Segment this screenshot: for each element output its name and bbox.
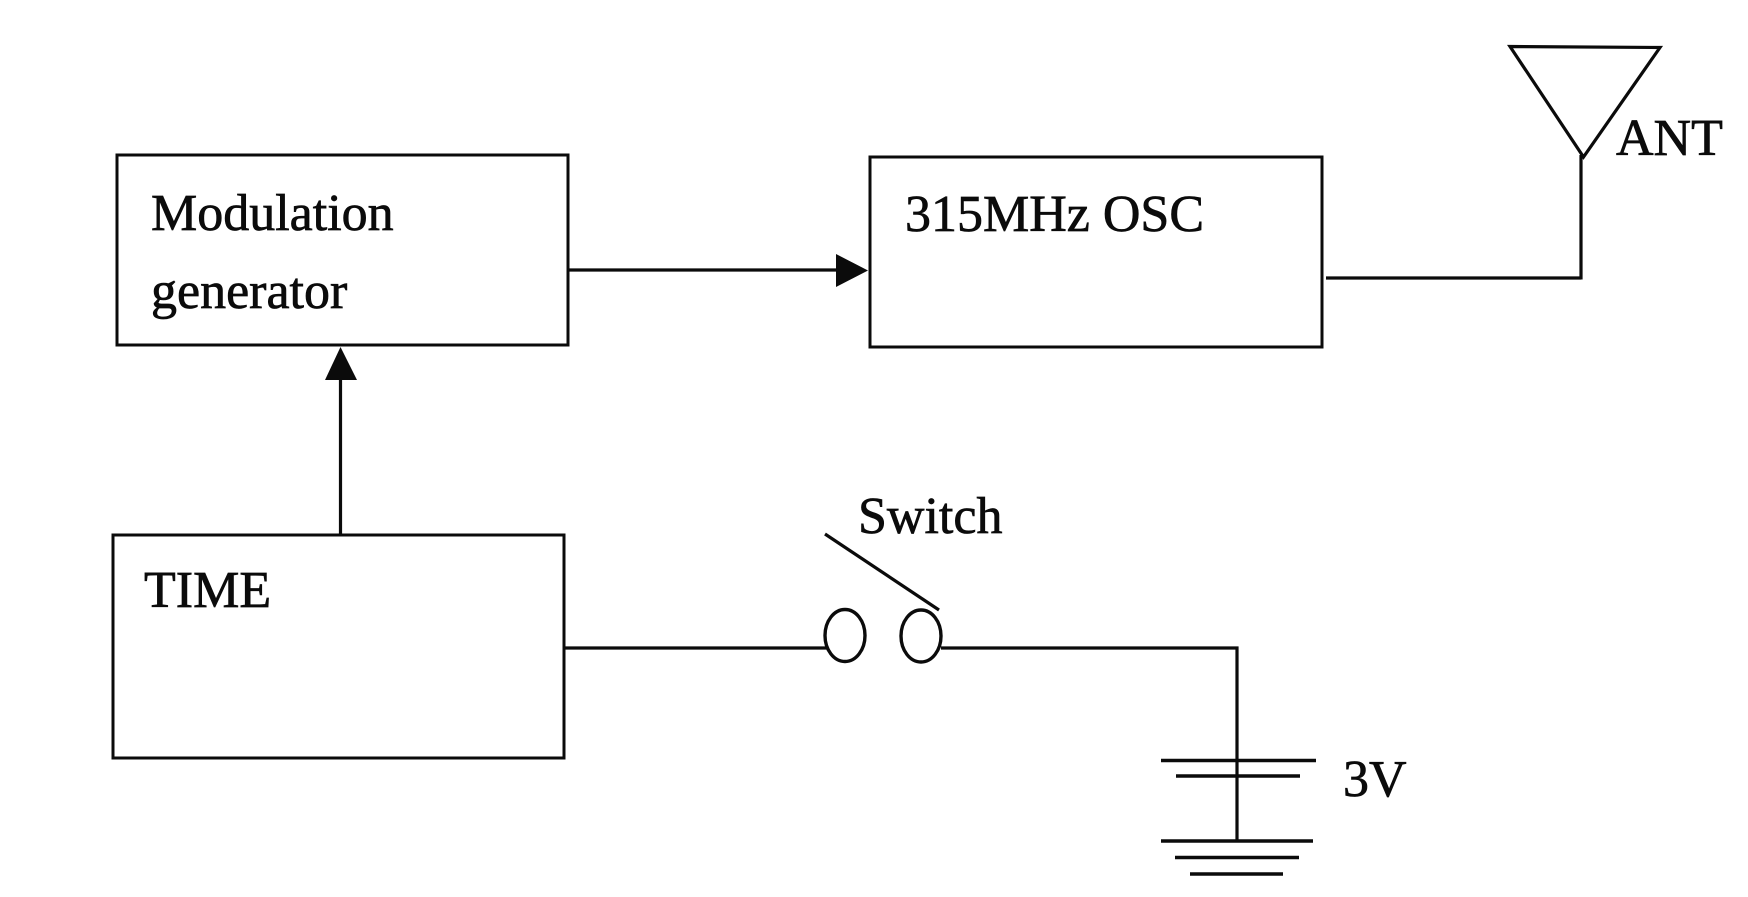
block U1 Modulation generator [117,155,568,345]
switch S1 right contact [901,610,941,662]
ground line 1 [1161,839,1313,843]
svg-text:Modulation: Modulation [151,185,394,242]
svg-text:ANT: ANT [1616,110,1723,167]
switch S1 left contact [825,610,865,662]
svg-text:generator: generator [151,263,347,320]
svg-text:315MHz OSC: 315MHz OSC [905,186,1204,243]
block U3 TIME [113,535,564,758]
ground line 2 [1175,856,1299,860]
wire switch to battery [941,647,1239,777]
svg-text:Switch: Switch [858,488,1002,545]
svg-text:TIME: TIME [144,562,271,619]
wire TIME output to switch [564,646,828,649]
antenna ANT [1510,47,1660,158]
battery BT1 negative plate [1176,774,1300,778]
switch S1 blade [825,534,939,610]
block U2 315MHz OSC [870,157,1322,347]
wire battery to ground [1235,776,1238,841]
wire OSC output to antenna [1326,155,1581,280]
wire TIME output up to modulation generator (arrow) [325,347,357,535]
svg-text:3V: 3V [1343,751,1407,808]
ground line 3 [1190,872,1283,876]
wire modulation generator output to OSC (arrow) [568,254,868,287]
battery BT1 positive plate [1161,759,1316,763]
